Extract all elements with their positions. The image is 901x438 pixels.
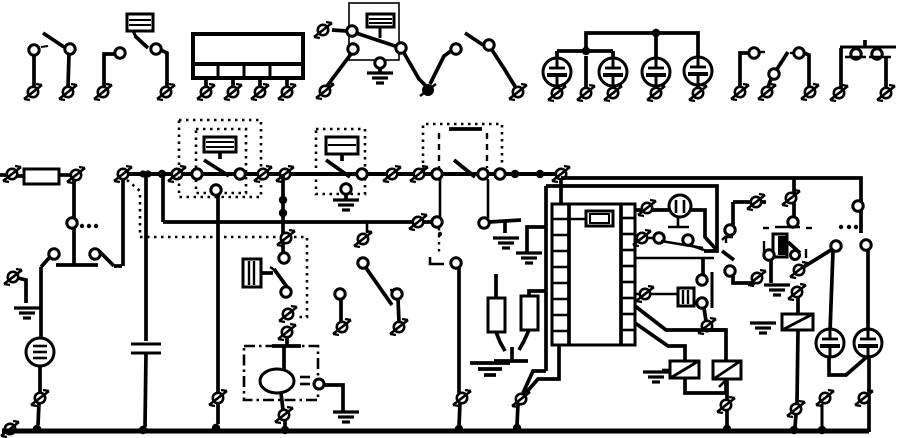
relay K1 coil: [367, 14, 394, 38]
terminal X35: [31, 390, 49, 406]
wire: [654, 33, 658, 58]
terminal X33: [855, 390, 873, 406]
wire: [635, 306, 726, 361]
terminal X29: [782, 190, 800, 206]
wire: [830, 251, 833, 332]
terminal X5e: [689, 85, 707, 101]
ground: [14, 308, 40, 318]
wire: [517, 404, 518, 425]
wire: [216, 195, 220, 424]
wire: [68, 54, 69, 87]
wire: [685, 378, 726, 393]
wire bus second: [557, 49, 613, 53]
node junction: [818, 426, 826, 434]
wire: [821, 404, 824, 428]
wire net B: [546, 186, 717, 251]
terminal X14: [276, 166, 294, 182]
dotted link: [80, 224, 98, 228]
relay K3 coil: [243, 259, 261, 287]
wire: [725, 410, 729, 425]
terminal X12: [209, 390, 227, 406]
wire: [32, 55, 36, 87]
wire main bus: [128, 172, 561, 176]
wire: [121, 179, 125, 266]
node junction: [511, 170, 519, 178]
terminal X42: [816, 390, 834, 406]
terminal X23: [633, 230, 651, 246]
wire: [39, 267, 43, 337]
terminal X41: [1, 421, 19, 437]
ground: [333, 194, 359, 210]
wire: [691, 210, 717, 250]
wire: [104, 54, 115, 87]
node junction: [455, 425, 463, 433]
ground: [367, 58, 393, 83]
wire: [281, 393, 283, 410]
wire: [701, 258, 705, 274]
motor M1: [260, 346, 324, 393]
terminal X10 bus start: [114, 166, 132, 182]
capacitor C5: [816, 329, 844, 357]
wire: [555, 85, 559, 88]
terminal X37: [333, 319, 351, 335]
node junction: [144, 170, 151, 177]
terminal X27: [717, 397, 735, 413]
node junction: [536, 170, 544, 178]
wire: [258, 78, 262, 88]
terminal X25: [636, 286, 654, 302]
terminal X8: [3, 166, 21, 182]
ic U1 right pins: [621, 204, 635, 345]
ground: [493, 222, 519, 248]
resistor R3: [521, 296, 538, 330]
wire: [829, 355, 869, 375]
terminal XT1-4: [278, 84, 296, 100]
wire: [398, 299, 399, 322]
wire: [795, 414, 796, 427]
wire: [696, 84, 700, 88]
wire: [775, 226, 800, 229]
relay K4 coil: [326, 137, 358, 161]
relay K1 contact: [347, 26, 406, 54]
relay K7 contact: [788, 242, 800, 260]
dotted link: [839, 225, 858, 229]
relay K3 contact: [261, 253, 291, 297]
node contact: [67, 218, 77, 228]
chain fragment: [726, 237, 733, 243]
node junction: [158, 170, 166, 178]
terminal X6a: [731, 84, 749, 100]
wire: [555, 51, 559, 59]
terminal X6c: [801, 84, 819, 100]
wire: [527, 227, 546, 252]
generator G1: [26, 338, 54, 366]
wire: [430, 51, 451, 84]
node junction: [279, 196, 287, 204]
wire: [797, 330, 798, 403]
terminal X34: [4, 269, 22, 285]
node contact: [788, 217, 798, 227]
node junction: [723, 425, 731, 433]
motor enclosure: [244, 346, 318, 400]
terminal X19 bus end: [552, 166, 570, 182]
wire: [72, 180, 76, 218]
terminal X20: [409, 214, 427, 230]
relay K2 contact: [192, 160, 245, 195]
switch S1: [29, 33, 75, 55]
connector XP1: [678, 272, 712, 308]
capacitor C7: [131, 344, 161, 353]
node contact: [432, 217, 442, 227]
wire: [725, 379, 729, 400]
wire: [38, 403, 39, 425]
switch S9: [802, 240, 871, 268]
wire: [332, 30, 347, 31]
wire: [731, 202, 735, 225]
wire: [161, 174, 165, 222]
terminal X26: [698, 318, 716, 334]
wire rail: [544, 186, 548, 371]
dotted enclosure bottom-left: [140, 237, 307, 317]
node junction: [582, 47, 590, 55]
wire: [366, 222, 369, 233]
wire: [492, 50, 516, 88]
capacitor C1: [543, 58, 571, 86]
wire: [487, 179, 490, 218]
wire: [285, 78, 289, 88]
capacitor C2: [599, 58, 627, 86]
terminal X5a: [548, 85, 566, 101]
wire: [324, 385, 343, 412]
capacitor C3: [642, 58, 670, 86]
wire: [457, 268, 461, 393]
resistor R1: [24, 169, 59, 184]
terminal X5c: [604, 85, 622, 101]
ground: [516, 253, 542, 263]
linkage: [486, 133, 488, 168]
wire: [635, 208, 669, 212]
wire: [17, 174, 24, 178]
terminal X1a: [24, 84, 42, 100]
terminal X21: [512, 391, 530, 407]
wire: [635, 293, 677, 296]
capacitor C6: [854, 329, 882, 357]
wire: [0, 173, 7, 177]
wire: [523, 371, 546, 393]
terminal X6b: [758, 84, 776, 100]
wire: [144, 174, 148, 341]
node junction: [513, 424, 521, 432]
node junction: [212, 424, 220, 432]
terminal X17: [278, 324, 296, 340]
wire: [283, 420, 287, 427]
node junction: [279, 209, 287, 217]
switch S7: [722, 251, 755, 283]
switch S8: [722, 225, 735, 240]
chain enclosure: [763, 228, 812, 258]
linkage: [438, 133, 440, 168]
relay K4 contact: [326, 160, 367, 194]
wire: [866, 250, 870, 331]
wire: [654, 85, 658, 88]
linkage: [438, 228, 440, 252]
terminal X18: [383, 166, 401, 182]
terminal X15: [277, 230, 295, 246]
wire: [18, 278, 26, 303]
terminal X4: [509, 84, 527, 100]
wire bus top: [586, 33, 698, 56]
terminal X28: [747, 194, 765, 210]
node contact: [451, 258, 461, 268]
terminal X38: [390, 319, 408, 335]
lamp H1: [669, 195, 691, 217]
terminal X7a: [830, 85, 848, 101]
terminal XT1-2: [224, 84, 242, 100]
terminal X9: [67, 167, 85, 183]
node junction: [139, 426, 147, 434]
resistor R2: [488, 298, 505, 332]
wire: [611, 51, 615, 59]
wire: [204, 78, 208, 88]
relay K7 coil: [764, 234, 787, 260]
relay K2 coil: [204, 137, 236, 159]
terminal block XT1: [193, 34, 303, 78]
terminal X1b: [59, 84, 77, 100]
switch S10: [41, 228, 122, 267]
wire: [719, 379, 727, 387]
terminal X18b: [410, 166, 428, 182]
terminal X32: [787, 401, 805, 417]
terminal X40: [453, 390, 471, 406]
pushbutton SB1: [840, 40, 896, 88]
wire: [339, 299, 343, 322]
wire: [529, 291, 546, 296]
wire: [404, 53, 427, 87]
terminal X3a: [314, 22, 332, 38]
wire: [38, 366, 42, 393]
wire: [635, 323, 685, 361]
terminal X24: [748, 270, 766, 286]
terminal X5d: [647, 85, 665, 101]
wire: [281, 174, 285, 253]
relay K2 outer enclosure: [179, 120, 261, 197]
wire bottom bus: [2, 429, 869, 434]
ic U1 body: [552, 204, 635, 345]
relay K2 inner enclosure: [196, 129, 246, 193]
terminal X3c: [420, 84, 436, 96]
node junction: [139, 170, 146, 177]
wire: [145, 353, 146, 427]
wire: [584, 56, 588, 88]
chain corner: [430, 232, 444, 264]
node junction: [281, 426, 289, 434]
relay K8 coil: [782, 314, 813, 330]
relay K1 enclosure: [349, 3, 399, 60]
terminal X39: [275, 407, 293, 423]
node junction: [652, 29, 660, 37]
wire: [496, 332, 505, 351]
node contact: [479, 218, 489, 228]
wire: [524, 345, 559, 395]
ground: [643, 370, 670, 382]
relay K4 enclosure: [316, 129, 365, 194]
relay K6 coil: [713, 361, 741, 379]
dotted leader: [127, 180, 140, 236]
wire: [708, 328, 726, 332]
switch S5: [432, 129, 505, 179]
switch S3: [451, 33, 494, 54]
terminal X2a: [94, 84, 112, 100]
terminal X31: [788, 284, 806, 300]
terminal XT1-3: [251, 84, 269, 100]
wire: [559, 178, 563, 204]
wire: [796, 297, 800, 313]
wire: [161, 50, 167, 87]
wire net A: [561, 178, 861, 233]
wire second bus: [163, 220, 437, 224]
ic U1 left pins: [552, 204, 569, 345]
capacitor C4: [684, 57, 712, 85]
relay K5 coil: [670, 361, 699, 378]
switch S11: [335, 258, 402, 305]
ground: [750, 323, 776, 333]
terminal X22: [638, 200, 656, 216]
wire: [519, 330, 529, 350]
wire: [489, 220, 521, 222]
ground: [333, 412, 359, 422]
node junction: [790, 426, 798, 434]
ground: [764, 285, 790, 295]
wire: [60, 173, 71, 177]
switch S2 with actuator box: [115, 14, 161, 58]
wire: [635, 257, 714, 260]
wire: [231, 78, 235, 88]
terminal X2b: [157, 84, 175, 100]
fuse F1: [569, 211, 613, 226]
wire: [285, 337, 289, 346]
wire: [459, 403, 460, 426]
terminal X16: [279, 306, 297, 322]
switch S5 enclosure: [423, 124, 502, 170]
ground pad: [470, 347, 528, 375]
wire: [733, 200, 766, 204]
switch S4: [740, 48, 809, 87]
terminal X30: [790, 262, 808, 278]
node junction: [33, 425, 41, 433]
terminal X13: [254, 166, 272, 182]
node contact: [853, 201, 863, 211]
terminal X3b: [316, 83, 334, 99]
terminal X11: [168, 166, 186, 182]
wire: [792, 178, 796, 217]
wire: [704, 308, 706, 321]
terminal XT1-1: [197, 84, 215, 100]
terminal X7b: [877, 85, 895, 101]
terminal X5b: [577, 85, 595, 101]
switch S6: [635, 217, 704, 250]
wire: [327, 54, 351, 86]
wire: [494, 274, 498, 298]
wire: [611, 85, 615, 88]
wire: [769, 259, 773, 283]
terminal X36: [354, 231, 372, 247]
wire: [867, 355, 871, 432]
wire: [439, 179, 442, 218]
